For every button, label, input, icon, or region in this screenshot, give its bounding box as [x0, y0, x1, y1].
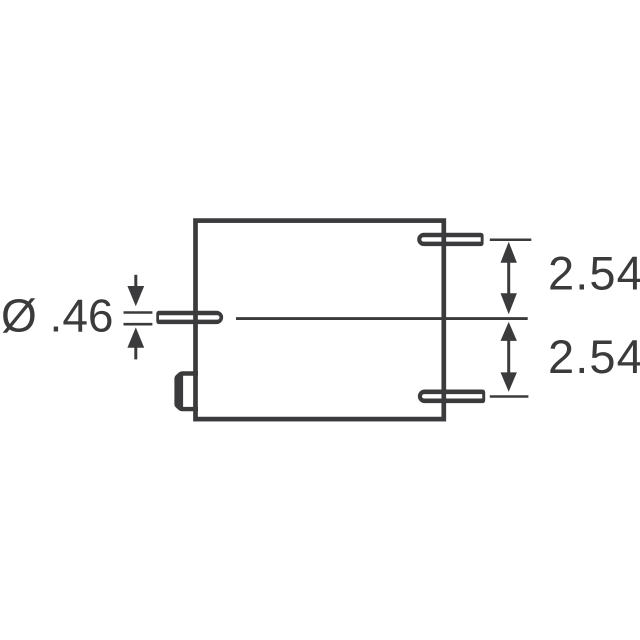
- dimension arrow upper (left, pointing down): [127, 275, 144, 307]
- dimension arrow upper 2.54 (right): [501, 242, 517, 315]
- label pitch 2.54 lower: [548, 330, 640, 383]
- dimension arrow lower 2.54 (right): [501, 322, 517, 392]
- dimension arrow lower (left, pointing up): [127, 327, 144, 359]
- component body fill: [196, 221, 444, 420]
- pin 2 (left lead): [156, 311, 223, 324]
- component body outline: [196, 221, 444, 420]
- extension tick at pin 1 level (right): [490, 238, 532, 241]
- label pin diameter .46: [1, 290, 114, 342]
- svg-text:Ø .46: Ø .46: [1, 290, 114, 342]
- extension tick at pin 2 bottom edge (left): [124, 323, 153, 326]
- svg-text:2.54: 2.54: [548, 246, 640, 299]
- extension tick at pin 2 top edge (left): [124, 311, 153, 314]
- svg-text:2.54: 2.54: [548, 330, 640, 383]
- label pitch 2.54 upper: [548, 246, 640, 299]
- pin 1 (top-right lead): [417, 233, 483, 246]
- extension tick at pin 3 level (right): [490, 395, 529, 398]
- mounting tab (lower-left bump): [174, 371, 198, 411]
- centerline through pin 2 axis: [236, 317, 528, 320]
- pin 3 (bottom-right lead): [418, 390, 485, 404]
